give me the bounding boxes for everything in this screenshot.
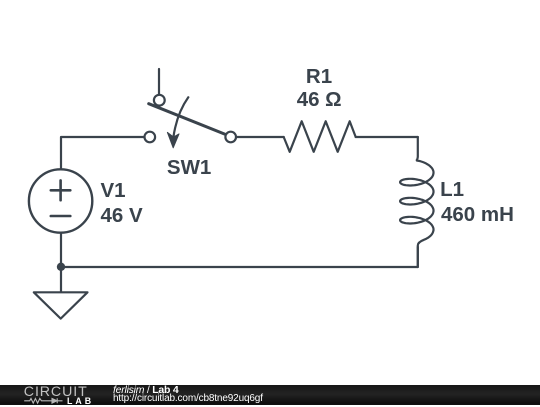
wire: resistor R1 to top-right corner down to inductor [356, 136, 418, 138]
CircuitLab wordmark LAB [67, 396, 94, 406]
switch SW1 arrowhead [167, 132, 179, 147]
V1 minus sign [51, 215, 71, 218]
inductor L1 coil [400, 137, 433, 267]
value 460 mH [441, 203, 514, 227]
junction dot node [57, 263, 65, 271]
V1 plus sign [51, 180, 71, 200]
logo diode bar and lead [57, 398, 62, 403]
plot title: ferlisim / Lab 4 [113, 384, 178, 396]
logo doodle: resistor zigzag and diode [24, 396, 66, 406]
wire: switch right terminal to resistor R1 [236, 136, 284, 138]
logo diode [52, 398, 57, 403]
value 46 V [101, 204, 143, 228]
switch SW1 right terminal circle [225, 132, 236, 143]
CircuitLab wordmark CIRCUIT [24, 384, 88, 400]
switch SW1 actuation arc [173, 97, 188, 138]
footer bar [0, 385, 540, 405]
ground symbol [34, 292, 88, 318]
wire: inductor bottom to bottom rail left to junction [61, 247, 418, 267]
voltage source V1 circle [29, 169, 92, 232]
label SW1 [167, 156, 211, 180]
wire: switch top stub [158, 69, 160, 95]
switch SW1 top terminal circle [154, 95, 165, 106]
resistor R1 zigzag body [284, 121, 356, 152]
logo resistor zigzag [24, 398, 52, 403]
value 46 ohm [297, 88, 342, 112]
switch SW1 left terminal circle [145, 132, 156, 143]
label R1 [306, 65, 332, 89]
wire: V1 top to switch left terminal [61, 137, 145, 171]
switch SW1 blade [149, 104, 226, 135]
label V1 [101, 179, 126, 203]
plot url text [113, 393, 263, 405]
label L1 [440, 178, 464, 202]
wire: V1 bottom through junction to ground [60, 232, 62, 292]
